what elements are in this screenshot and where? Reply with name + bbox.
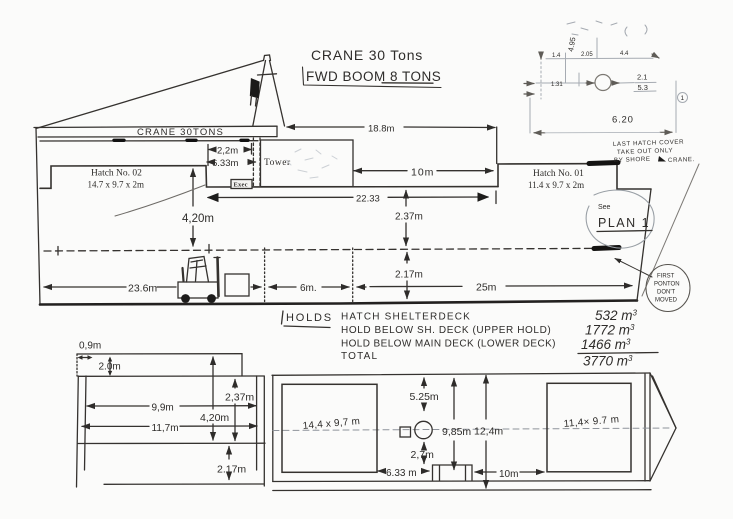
svg-text:5.3: 5.3 <box>638 83 648 92</box>
section left wall <box>77 376 87 487</box>
svg-text:4,20m: 4,20m <box>200 412 229 424</box>
svg-text:HATCH SHELTERDECK: HATCH SHELTERDECK <box>341 312 471 323</box>
svg-text:4.95: 4.95 <box>566 36 577 52</box>
plan bow slants <box>650 373 676 481</box>
section 0.9m dotted edge <box>76 354 78 376</box>
circled note FIRST PONTON DON'T MOVED <box>646 265 690 312</box>
hatch cover tick 3 <box>241 139 248 142</box>
hold 2 rectangle <box>547 383 631 472</box>
svg-text:CRANE 30 Tons: CRANE 30 Tons <box>311 47 423 63</box>
svg-text:2.37m: 2.37m <box>395 212 423 223</box>
svg-text:3770 m3: 3770 m3 <box>583 354 633 369</box>
deck step right of hatch02 <box>206 166 498 187</box>
svg-text:2.1: 2.1 <box>637 73 647 82</box>
label Hatch No. 01 <box>528 169 584 190</box>
pencil shading in tower <box>286 149 337 178</box>
dimension 2.17m section <box>217 447 246 480</box>
freehand curve leader <box>115 185 205 216</box>
svg-text:HOLD BELOW SH. DECK (UPPER HOL: HOLD BELOW SH. DECK (UPPER HOLD) <box>341 325 551 336</box>
svg-text:LAST HATCH COVER: LAST HATCH COVER <box>613 139 684 148</box>
svg-text:9,85m: 9,85m <box>442 426 471 438</box>
hold 1 rectangle <box>282 384 377 472</box>
label CRANE 30 TONS on rail <box>137 127 224 138</box>
svg-text:2,7m: 2,7m <box>411 449 435 461</box>
mast circle fitting <box>415 421 432 438</box>
tick on dashed line mid <box>208 245 210 254</box>
svg-text:Tower: Tower <box>264 158 291 168</box>
svg-text:4.4: 4.4 <box>620 51 629 57</box>
svg-text:2.17m: 2.17m <box>395 270 423 281</box>
hatch cover tick 2 <box>187 139 196 142</box>
svg-text:6.33m: 6.33m <box>212 158 238 169</box>
deck band CRANE 30 TONS rail <box>34 126 277 137</box>
svg-text:1772 m3: 1772 m3 <box>585 323 635 338</box>
svg-text:MOVED: MOVED <box>655 298 678 304</box>
svg-text:FWD BOOM 8 TONS: FWD BOOM 8 TONS <box>306 69 441 84</box>
hold 1 label <box>302 416 360 432</box>
svg-text:Hatch No. 01: Hatch No. 01 <box>533 169 584 179</box>
pencil sketch darker arrows <box>524 52 672 133</box>
dimension 2,37m section <box>225 380 254 441</box>
svg-text:Hatch No. 02: Hatch No. 02 <box>91 169 142 179</box>
small square fitting <box>400 427 411 437</box>
svg-text:11,4× 9.7 m: 11,4× 9.7 m <box>563 414 619 430</box>
winch house <box>433 465 473 481</box>
pencil 6.20 <box>612 115 634 126</box>
dimension 2.0m <box>99 357 121 376</box>
dimension 2,7m plan <box>411 443 435 464</box>
svg-text:HOLDS: HOLDS <box>286 312 333 324</box>
dimension 6m <box>251 283 366 294</box>
plan outer left <box>272 375 274 481</box>
arrow pontoon to circle note <box>615 259 652 278</box>
label Hatch No. 02 <box>88 169 145 190</box>
section second deck <box>78 375 264 377</box>
hatch No.02 coaming <box>40 166 206 189</box>
svg-text:14,4 x 9,7 m: 14,4 x 9,7 m <box>302 416 360 432</box>
svg-text:22.33: 22.33 <box>356 194 380 205</box>
svg-text:10m: 10m <box>411 167 434 179</box>
svg-text:6.33 m: 6.33 m <box>386 468 417 479</box>
dimension 9,9m <box>87 403 256 414</box>
label Tower <box>264 158 291 168</box>
svg-text:TOTAL: TOTAL <box>341 351 378 362</box>
svg-text:2,2m: 2,2m <box>217 146 238 157</box>
svg-text:11,7m: 11,7m <box>152 423 179 434</box>
dimension 11,7m <box>82 423 257 434</box>
svg-text:6.20: 6.20 <box>612 115 634 126</box>
dimension 5.25m plan <box>410 378 439 411</box>
section bottom line <box>104 483 264 485</box>
section third line <box>78 442 265 444</box>
tower box <box>261 140 354 187</box>
bold hatch cover mark top <box>589 163 618 164</box>
carried box <box>225 274 249 296</box>
note leader to stern <box>642 164 699 296</box>
plan bow transom double <box>645 373 650 481</box>
svg-text:1: 1 <box>681 95 685 102</box>
dimension 25m <box>370 282 632 294</box>
svg-text:See: See <box>598 204 611 211</box>
svg-text:HOLD BELOW MAIN DECK (LOWER DE: HOLD BELOW MAIN DECK (LOWER DECK) <box>341 339 556 350</box>
svg-text:532 m3: 532 m3 <box>595 308 638 323</box>
dimension 6.33m plan <box>378 468 429 479</box>
svg-text:PONTON: PONTON <box>654 282 680 288</box>
svg-text:1.31: 1.31 <box>551 82 563 88</box>
dimension 10m plan <box>475 469 544 480</box>
dimension 10m <box>354 167 493 179</box>
boom pendant lines <box>251 96 257 107</box>
HOLDS table <box>282 311 556 362</box>
plan bottom line inner <box>273 480 649 483</box>
deck line below rail <box>40 140 258 142</box>
svg-text:2.0m: 2.0m <box>99 362 121 373</box>
svg-text:TAKE OUT ONLY: TAKE OUT ONLY <box>617 147 673 156</box>
dimension 12,4m plan <box>474 376 503 489</box>
svg-text:18.8m: 18.8m <box>368 124 394 135</box>
svg-text:Exec: Exec <box>234 182 248 189</box>
hold 2 label <box>563 414 619 430</box>
svg-text:DON'T: DON'T <box>657 290 675 296</box>
svg-text:4,20m: 4,20m <box>182 213 214 225</box>
pencil sketch texts <box>551 36 685 102</box>
hull sheer diagonal line <box>36 61 263 129</box>
svg-text:6m.: 6m. <box>300 283 317 294</box>
dimension 4,20m section <box>200 357 229 440</box>
plan outer top <box>272 373 650 375</box>
tween deck dashed line <box>44 248 592 251</box>
dimension 23.6m <box>44 283 176 295</box>
mast column below deck <box>253 138 260 188</box>
section top deck <box>77 354 242 376</box>
hatch cover tick 1 <box>114 139 124 142</box>
hatch No.01 coaming <box>498 164 617 187</box>
svg-text:2.17m: 2.17m <box>217 464 246 476</box>
svg-text:FIRST: FIRST <box>657 274 675 280</box>
svg-text:CRANE 30TONS: CRANE 30TONS <box>137 127 224 138</box>
dotted vertical line left of 6m <box>264 248 266 304</box>
plan bottom line outer <box>273 489 651 492</box>
svg-text:1.4: 1.4 <box>552 53 561 59</box>
svg-text:12,4m: 12,4m <box>474 426 503 438</box>
note LAST HATCH COVER <box>613 139 695 164</box>
dimension 0,9m <box>78 341 102 360</box>
svg-text:CRANE.: CRANE. <box>668 156 695 164</box>
hull left side <box>36 128 40 305</box>
Exec small box <box>231 180 252 189</box>
dimension 22.33 <box>208 191 496 205</box>
svg-text:1466 m3: 1466 m3 <box>581 337 631 352</box>
crane boom black <box>251 79 260 98</box>
HOLDS values <box>578 308 658 369</box>
svg-text:0,9m: 0,9m <box>79 341 101 352</box>
pencil sketch circle fitting <box>595 75 611 91</box>
dimension 2,2m <box>209 144 252 157</box>
svg-text:BY SHORE: BY SHORE <box>614 156 651 164</box>
bold pontoon mark on dashed line <box>594 248 619 249</box>
hatch01 right step down <box>617 164 651 189</box>
svg-text:9,9m: 9,9m <box>152 403 174 414</box>
svg-text:2.05: 2.05 <box>581 52 593 58</box>
see PLAN 1 <box>597 204 652 232</box>
pencil sketch faint lines <box>530 21 688 133</box>
dimension 4.20m vertical <box>182 169 214 246</box>
svg-text:14.7 x 9.7 x 2m: 14.7 x 9.7 x 2m <box>88 180 145 190</box>
svg-text:5.25m: 5.25m <box>410 391 439 403</box>
svg-text:23.6m: 23.6m <box>128 283 157 295</box>
forklift <box>178 257 220 303</box>
svg-text:PLAN 1: PLAN 1 <box>598 216 650 230</box>
hull bottom line <box>40 301 637 305</box>
dimension 6.33m <box>207 145 256 170</box>
dimension 2.37m vertical <box>395 191 423 246</box>
dimension 9,85m plan <box>442 379 471 470</box>
hull stern slant <box>637 189 651 301</box>
svg-text:25m: 25m <box>476 282 497 294</box>
svg-text:10m: 10m <box>499 469 518 480</box>
svg-text:11.4 x 9.7 x 2m: 11.4 x 9.7 x 2m <box>528 180 584 190</box>
crane mast <box>253 55 285 126</box>
section right wall <box>257 376 265 486</box>
sketchy ellipse around PLAN 1 <box>586 190 654 248</box>
dotted vertical line right of 6m <box>352 248 354 304</box>
tick on dashed line left <box>57 247 59 256</box>
handwritten note CRANE 30 Tons <box>303 47 442 88</box>
svg-text:2,37m: 2,37m <box>225 392 254 404</box>
dimension 2.17m vertical <box>395 253 423 299</box>
dimension 18.8m <box>287 124 497 164</box>
plan centerline dashed <box>273 428 672 431</box>
